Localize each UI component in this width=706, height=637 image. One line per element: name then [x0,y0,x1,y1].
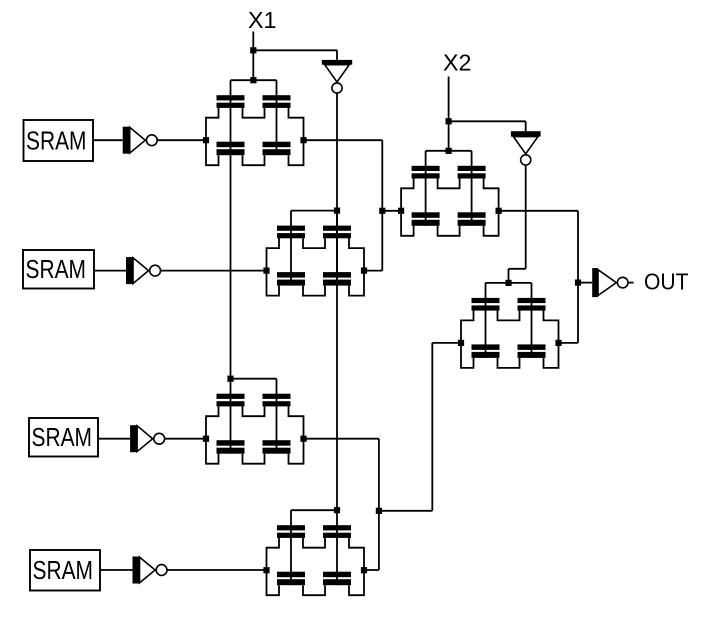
wire inverter INV1 output to TG input [157,139,206,141]
transmission gate TG4 left upper gate bar [277,525,305,530]
wire X1 inverter input stub [336,50,338,60]
transmission gate TG4 right upper channel bar [323,533,351,538]
transmission gate TG4 right lower channel bar [323,579,351,585]
transmission gate TG1 left upper gate bar [217,95,245,100]
transmission gate TG1 right upper gate bar [263,95,291,100]
wire X2bar vertical [525,166,527,269]
transmission gate TG4 right lower gate bar [323,572,351,578]
transmission gate TG6 left lower gate bar [472,344,500,350]
transmission gate TG4 middle upper source/drain bridge [303,538,325,548]
transmission gate TG2 left upper gate bar [277,226,305,231]
transmission gate TG4 right gate column [336,510,338,585]
transmission gate TG4 left source/drain path [267,538,280,596]
transmission gate TG4 left upper channel bar [277,533,305,538]
node X2bar at TG6 gate wire [505,280,511,286]
wire X2 label stem [448,77,450,122]
transmission gate TG3 left upper channel bar [217,401,245,406]
wire net B to TG6 input [432,342,461,344]
wire TG1 output (horizontal) [304,139,383,141]
wire net A vertical [381,140,383,270]
transmission gate TG6 right lower gate bar [518,344,546,350]
transmission gate TG1 gate control wire (top) [231,79,277,81]
SRAM cell 1 box [24,120,94,161]
wire X2 to inverter (horizontal) [449,120,526,122]
wire X2bar down to TG6 [508,269,510,283]
transmission gate TG1 right lower gate bar [263,142,291,148]
transmission gate TG3 right lower channel bar [263,448,291,454]
inverter U2 (X2 bar) back bar [511,131,541,136]
transmission gate TG2 right upper gate bar [323,226,351,231]
wire inverter INV3 output to TG input [165,438,206,440]
transmission gate TG6 input terminal node [458,340,464,346]
transmission gate TG6 left gate column [485,283,487,358]
wire TG3 output (horizontal) [304,438,379,440]
wire X2bar jog (horizontal) [509,268,526,270]
transmission gate TG1 left lower channel bar [217,149,245,155]
node net A junction [379,208,385,214]
transmission gate TG5 left source/drain path [401,178,414,236]
transmission gate TG4 right upper gate bar [323,525,351,530]
svg-text:SRAM: SRAM [33,557,94,585]
transmission gate TG4 right source/drain path [349,538,364,596]
transmission gate TG5 left gate column [425,151,427,226]
wire OUT stub [628,282,634,284]
transmission gate TG5 right lower gate bar [458,212,486,218]
inverter INV2 back bar [126,257,133,284]
transmission gate TG1 left source/drain path [206,108,219,166]
transmission gate TG6 output terminal node [555,340,561,346]
transmission gate TG1 middle upper source/drain bridge [243,108,265,118]
node net C junction [575,280,581,286]
transmission gate TG3 left lower channel bar [217,448,245,454]
transmission gate TG5 right upper gate bar [458,166,486,171]
inverter U1 (X1 bar) triangle [325,65,350,82]
SRAM cell 2 box [23,250,94,289]
transmission gate TG2 input terminal node [263,268,269,274]
node X2 at TG5 gate wire [446,148,452,154]
transmission gate TG6 right gate column [531,283,533,358]
wire net B routing (vertical) [431,343,433,511]
inverter U2 (X2 bar) bubble [521,155,531,165]
transmission gate TG1 right source/drain path [289,108,304,166]
transmission gate TG1 right lower channel bar [263,149,291,155]
inverter INV2 triangle [133,258,149,284]
transmission gate TG4 left lower channel bar [277,579,305,585]
wire SRAM cell 4 to inverter [100,569,133,571]
transmission gate TG1 output terminal node [300,137,306,143]
transmission gate TG3 left gate column [230,379,232,454]
transmission gate TG3 middle upper source/drain bridge [243,406,265,416]
wire inverter INV4 output to TG input [167,569,266,571]
wire SRAM cell 2 to inverter [94,270,126,272]
transmission gate TG2 middle upper source/drain bridge [303,238,325,248]
wire X1 label stem [252,32,254,51]
transmission gate TG2 right upper channel bar [323,233,351,238]
transmission gate TG6 left lower channel bar [472,352,500,358]
transmission gate TG6 gate control wire (top) [486,282,532,284]
transmission gate TG3 middle lower source/drain bridge [243,454,265,464]
transmission gate TG6 right source/drain path [544,310,559,368]
wire SRAM cell 1 to inverter [93,139,123,141]
transmission gate TG2 gate control wire (top) [291,210,337,212]
transmission gate TG5 right upper channel bar [458,173,486,178]
transmission gate TG5 input terminal node [398,208,404,214]
transmission gate TG6 middle lower source/drain bridge [498,358,520,368]
transmission gate TG1 left lower gate bar [217,142,245,148]
wire TG2 output (horizontal) [364,270,383,272]
transmission gate TG6 middle upper source/drain bridge [498,310,520,320]
transmission gate TG6 right upper channel bar [518,305,546,310]
transmission gate TG2 middle lower source/drain bridge [303,286,325,296]
transmission gate TG2 left upper channel bar [277,233,305,238]
SRAM cell 4 box [30,550,100,591]
transmission gate TG3 input terminal node [203,436,209,442]
transmission gate TG5 right lower channel bar [458,220,486,226]
transmission gate TG2 left gate column [290,211,292,286]
wire TG6 output (horizontal) [559,342,579,344]
transmission gate TG5 middle upper source/drain bridge [438,178,460,188]
svg-text:X2: X2 [443,50,472,76]
transmission gate TG3 left lower gate bar [217,440,245,446]
inverter U2 (X2 bar) triangle [513,137,538,154]
inverter INV5 (output) triangle [598,270,616,296]
wire X1 to inverter (horizontal) [253,49,337,51]
wire net C to output inverter [578,282,592,284]
transmission gate TG4 output terminal node [361,567,367,573]
transmission gate TG3 right upper gate bar [263,394,291,399]
transmission gate TG2 left source/drain path [267,238,280,296]
transmission gate TG3 right gate column [276,379,278,454]
node X1 branch junction [250,47,256,53]
wire SRAM cell 3 to inverter [98,438,130,440]
transmission gate TG3 right lower gate bar [263,440,291,446]
transmission gate TG4 input terminal node [263,567,269,573]
transmission gate TG5 right source/drain path [484,178,499,236]
node X1bar at TG4 gate wire [334,507,340,513]
wire net B vertical [378,439,380,570]
transmission gate TG5 output terminal node [496,208,502,214]
svg-text:SRAM: SRAM [26,256,87,284]
transmission gate TG6 left upper gate bar [472,298,500,303]
transmission gate TG3 right upper channel bar [263,401,291,406]
transmission gate TG4 left lower gate bar [277,572,305,578]
svg-text:SRAM: SRAM [26,128,87,156]
wire TG4 output (horizontal) [364,569,379,571]
inverter INV4 back bar [133,557,140,584]
wire TG5 output (horizontal) [499,210,578,212]
inverter INV1 bubble [146,135,157,146]
transmission gate TG3 left source/drain path [206,406,219,464]
wire inverter INV2 output to TG input [161,270,267,272]
wire X1 branch down TG1 left column to TG3 [230,155,232,379]
node X1bar at TG2 gate wire [334,208,340,214]
transmission gate TG2 right source/drain path [349,238,364,296]
transmission gate TG2 right lower channel bar [323,280,351,286]
node net B junction [376,508,382,514]
SRAM cell 3 box [29,418,98,457]
wire X1bar vertical to TG2 and TG4 [336,93,338,510]
transmission gate TG5 right gate column [471,151,473,226]
wire net A to TG5 input [382,210,401,212]
node X1 at TG1 gate wire [250,77,256,83]
transmission gate TG2 left lower channel bar [277,280,305,286]
transmission gate TG1 right upper channel bar [263,103,291,108]
inverter INV5 (output) bubble [617,277,628,288]
transmission gate TG3 right source/drain path [289,406,304,464]
transmission gate TG1 left gate column [230,80,232,155]
node X2 branch junction [446,118,452,124]
transmission gate TG2 left lower gate bar [277,272,305,278]
transmission gate TG5 middle lower source/drain bridge [438,226,460,236]
inverter INV3 back bar [130,425,137,452]
inverter INV1 back bar [123,127,130,154]
transmission gate TG2 right gate column [336,211,338,286]
transmission gate TG5 left upper gate bar [412,166,440,171]
svg-text:SRAM: SRAM [32,424,93,452]
transmission gate TG6 right upper gate bar [518,298,546,303]
transmission gate TG1 left upper channel bar [217,103,245,108]
inverter INV2 bubble [150,265,161,276]
inverter U1 (X1 bar) back bar [322,60,352,65]
wire X2 inverter input stub [525,121,527,131]
transmission gate TG4 left gate column [290,510,292,585]
inverter INV5 (output) back bar [592,268,598,297]
wire X1 down to TG1 [252,50,254,80]
transmission gate TG3 output terminal node [300,436,306,442]
transmission gate TG5 gate control wire (top) [426,150,472,152]
inverter U1 (X1 bar) bubble [332,83,342,93]
svg-text:X1: X1 [248,7,277,33]
transmission gate TG5 left lower gate bar [412,212,440,218]
inverter INV3 triangle [137,426,153,452]
transmission gate TG3 left upper gate bar [217,394,245,399]
transmission gate TG5 left upper channel bar [412,173,440,178]
inverter INV3 bubble [154,433,165,444]
transmission gate TG2 right lower gate bar [323,272,351,278]
node X1 at TG3 gate wire [227,376,233,382]
wire net B routing (horizontal) [379,510,432,512]
wire X2 down to TG5 [448,121,450,151]
transmission gate TG6 left source/drain path [461,310,474,368]
transmission gate TG4 gate control wire (top) [291,509,337,511]
transmission gate TG1 input terminal node [203,137,209,143]
inverter INV4 triangle [140,557,156,583]
inverter INV1 triangle [130,127,146,153]
svg-text:OUT: OUT [644,269,689,295]
transmission gate TG4 middle lower source/drain bridge [303,585,325,595]
inverter INV4 bubble [156,565,167,576]
transmission gate TG1 right gate column [276,80,278,155]
wire net C vertical [577,211,579,343]
transmission gate TG6 right lower channel bar [518,352,546,358]
transmission gate TG2 output terminal node [361,268,367,274]
transmission gate TG5 left lower channel bar [412,220,440,226]
transmission gate TG1 middle lower source/drain bridge [243,155,265,165]
transmission gate TG3 gate control wire (top) [231,378,277,380]
transmission gate TG6 left upper channel bar [472,305,500,310]
